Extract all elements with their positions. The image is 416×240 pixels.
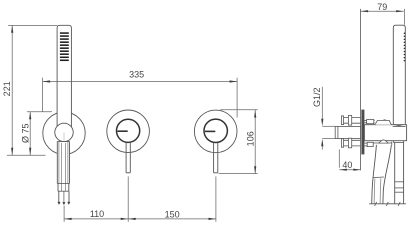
svg-text:40: 40 <box>342 160 352 170</box>
svg-text:110: 110 <box>90 209 104 219</box>
svg-text:Ø 75: Ø 75 <box>20 123 30 143</box>
svg-text:106: 106 <box>246 131 256 146</box>
svg-text:150: 150 <box>165 209 180 219</box>
svg-text:335: 335 <box>129 69 144 79</box>
svg-text:G1/2: G1/2 <box>312 88 322 108</box>
svg-text:79: 79 <box>377 2 387 12</box>
svg-text:221: 221 <box>2 81 12 96</box>
